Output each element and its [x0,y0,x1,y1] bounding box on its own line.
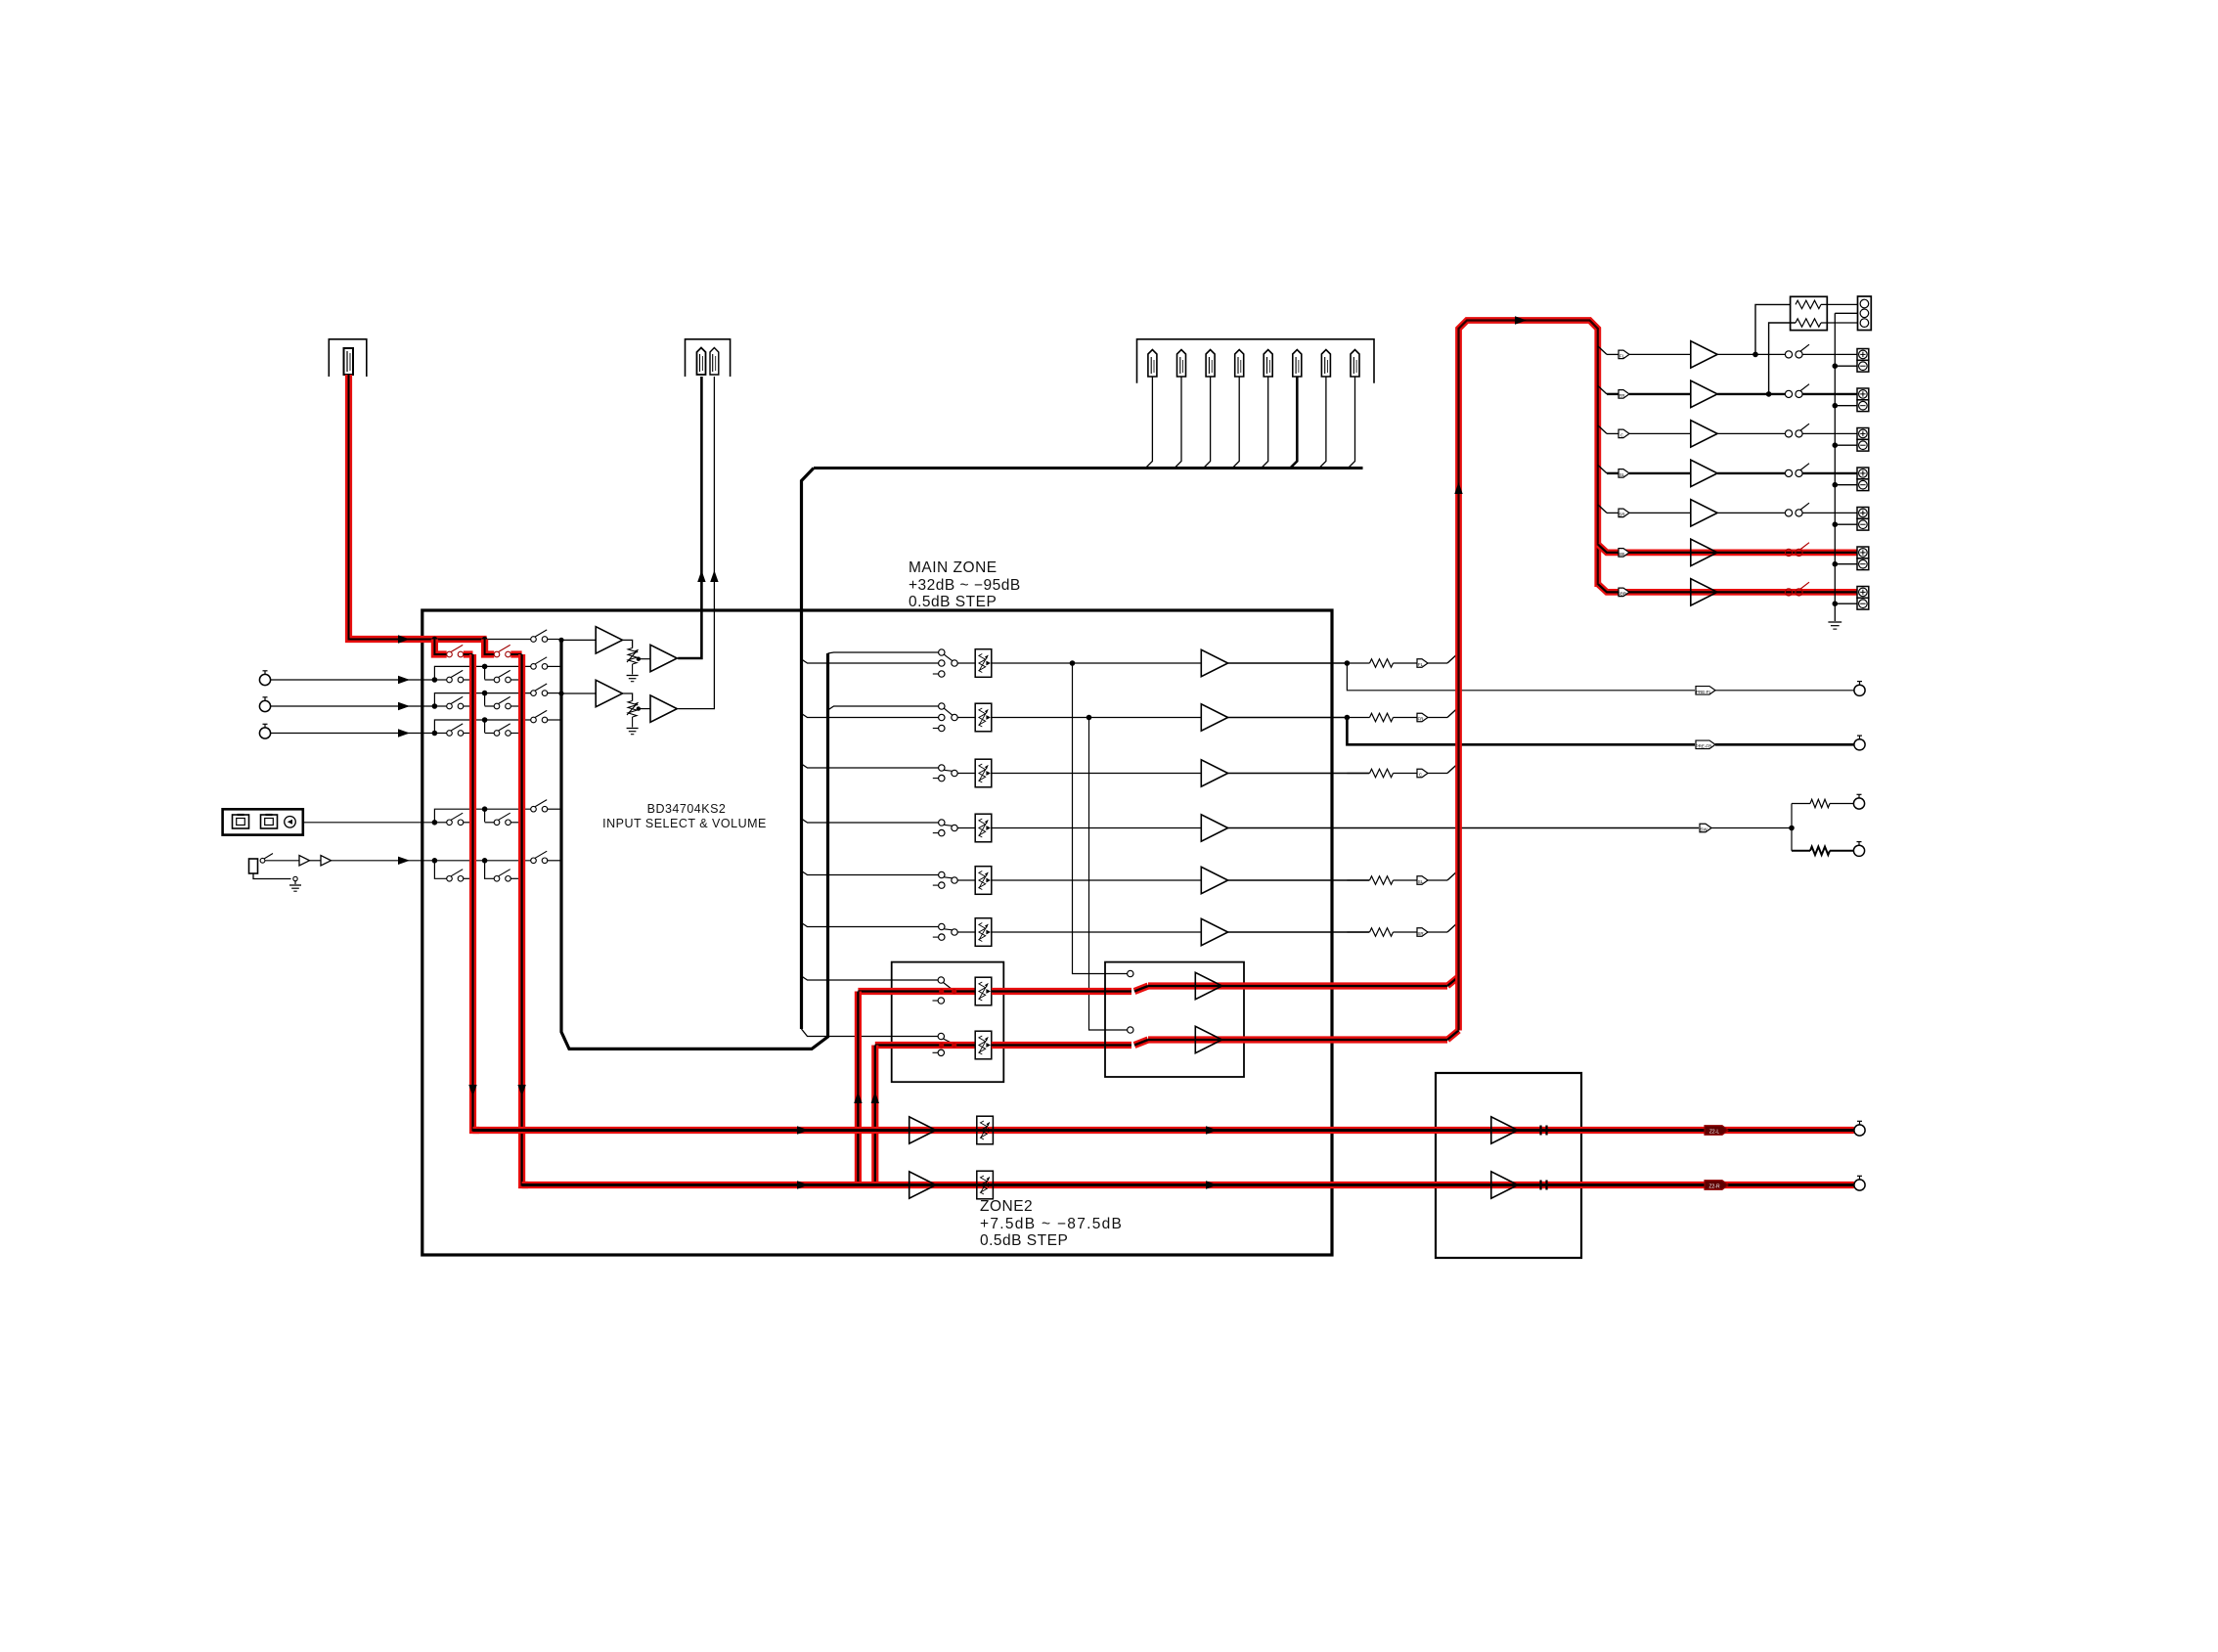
red selected-source bus L (vertical) [468,654,479,1131]
connector CN3 (DSP outputs, 8-pin) [1137,339,1375,383]
red riser zone2 R [871,1046,879,1185]
mic input row 6 with select switches [249,851,562,891]
svg-text:INPUT SELECT & VOLUME: INPUT SELECT & VOLUME [602,817,767,830]
headphone amp chain L (U2a) [558,627,678,682]
svg-text:SR: SR [1619,512,1625,516]
zone2 output row R [522,1171,1866,1199]
net SW: tag and dual subwoofer outputs [1700,794,1865,856]
svg-text:+32dB ~ −95dB: +32dB ~ −95dB [909,577,1021,594]
zone2 volume row L (red path through switch and attenuator) [858,977,1131,1005]
volume/switch/buffer row SR [933,918,1369,947]
svg-text:SBL: SBL [1618,552,1626,557]
power amp module outline (zone2 output box) [1436,1073,1581,1258]
wire FL direct to zone2 buffer switch [1073,663,1128,974]
wire red from CN1 down to input row 1 [349,375,488,644]
svg-text:ZONE2: ZONE2 [980,1198,1033,1215]
label BD34704KS2 [602,802,767,830]
direct signal bus from input select (thick) [561,640,939,1049]
svg-text:SL: SL [1619,472,1625,477]
svg-text:+7.5dB ~ −87.5dB: +7.5dB ~ −87.5dB [980,1216,1123,1232]
red riser zone2 L [854,992,862,1185]
speaker return bus and ground [1828,313,1841,629]
label MAIN ZONE [909,559,1021,610]
row1 red jog to col1 switch [434,640,446,655]
wires from CN3 pins down to dsp bus [1145,377,1354,469]
row1 col2 switch (red) [494,645,510,656]
headphone amp chain R (U2b) [558,680,677,734]
zone2 volume row R (red path through switch and attenuator) [875,1031,1131,1059]
wire headphone L output up to CN2 [678,377,705,658]
zone2 buffer row L: switch, amp, to power bus [1128,970,1459,999]
power amp channel SBL [1598,539,1869,569]
net SL: level resistor, tag, to power bus [1347,871,1458,885]
svg-text:0.5dB STEP: 0.5dB STEP [980,1232,1068,1249]
volume/switch/buffer row SW [933,814,1699,842]
input row 1 net (to col3 switch and direct bus) [485,630,561,642]
svg-text:BD34704KS2: BD34704KS2 [647,802,727,816]
zone2 volume block outline [892,962,1004,1083]
label ZONE2 [980,1198,1123,1249]
volume/switch/buffer row FL [933,649,1348,678]
power amp channel FL [1598,341,1869,372]
terminal block TB1 (3-pin) [1835,296,1871,331]
wire FR direct to zone2 buffer switch [1089,718,1128,1031]
volume/switch/buffer row SL [933,867,1369,895]
zone2 output row L [473,1116,1866,1144]
row1 red jog to col2 switch [485,640,495,655]
svg-text:SR: SR [1417,931,1424,936]
IC U1 BD34704KS2 outline [422,610,1332,1255]
svg-text:FL: FL [1619,353,1625,358]
row1 col1 switch (red) [447,645,464,656]
power amp channel C [1598,421,1869,451]
svg-text:FL: FL [1418,662,1424,667]
bridge resistor network R-AB [1752,296,1857,396]
net FR: junctions, level resistor, tag, to power bus [1087,707,1459,722]
power amp channel SL [1598,460,1869,490]
power amp channel SBR [1598,579,1869,609]
optical input (DOCK) row 5 with select switches [223,800,561,835]
net PRE-FR: to pre-out jack (thick) [1347,718,1865,750]
red selected-source bus R (vertical) [517,654,528,1185]
row1 red col1 out to bus1 [464,650,473,657]
input row 2 (CD L) with select switches [259,657,561,686]
volume/switch/buffer row FR [933,703,1348,732]
svg-text:SL: SL [1418,879,1424,884]
svg-text:MAIN ZONE: MAIN ZONE [909,559,998,576]
net FL: junctions, level resistor, tag, to power bus [1070,653,1459,668]
svg-text:FR: FR [1418,717,1425,722]
net SR: level resistor, tag, to power bus [1347,922,1458,937]
connector CN1 (AUDIO IN, top left) [329,339,367,377]
svg-text:Z2-R: Z2-R [1708,1184,1720,1190]
volume/switch/buffer row C [933,759,1369,787]
row1 red col2 out to bus2 [510,650,521,657]
wire headphone R output up to CN2 [678,377,718,709]
svg-text:SBR: SBR [1618,591,1627,596]
svg-text:PRE-FR: PRE-FR [1696,743,1713,748]
red bus to power amps (arch) [1454,316,1598,1030]
svg-text:PRE-FL: PRE-FL [1696,690,1712,694]
input row 3 (CD R) with select switches [259,684,561,712]
zone2 buffer row R: switch, amp, to power bus [1128,1026,1459,1052]
zone2 buffer block outline [1105,962,1244,1077]
input row 4 (AUX) with select switches [259,710,561,738]
dsp signal bus (thick) [802,469,1363,1037]
svg-text:FR: FR [1619,393,1626,398]
wires dsp bus stubs to volume switch inputs [802,659,939,980]
svg-text:SW: SW [1700,827,1708,832]
power amp channel SR [1598,500,1869,530]
power amp channel FR [1598,380,1869,411]
net PRE-FL: to pre-out jack [1347,663,1865,695]
connector CN2 (PHONES, top middle) [686,339,731,377]
svg-text:0.5dB STEP: 0.5dB STEP [909,594,997,610]
net C: level resistor, tag, to power bus [1347,763,1458,778]
svg-text:Z2-L: Z2-L [1709,1130,1720,1136]
